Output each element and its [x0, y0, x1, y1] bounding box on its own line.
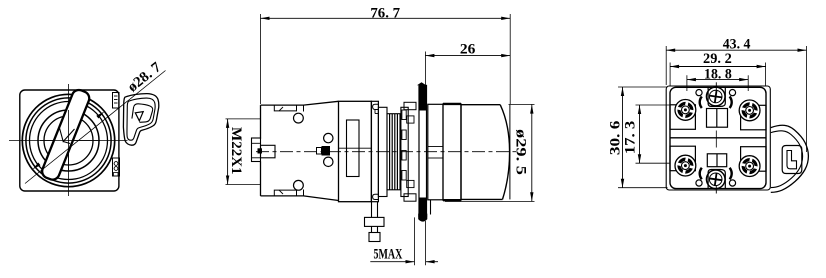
svg-text:5MAX: 5MAX: [374, 247, 403, 263]
svg-text:M22X1: M22X1: [228, 127, 244, 175]
svg-text:29. 2: 29. 2: [703, 51, 732, 67]
svg-text:17. 3: 17. 3: [622, 121, 638, 154]
svg-text:76. 7: 76. 7: [370, 5, 400, 21]
svg-text:30. 6: 30. 6: [608, 121, 624, 156]
svg-text:18. 8: 18. 8: [704, 66, 732, 82]
svg-text:26: 26: [460, 41, 476, 57]
svg-text:ø29. 5: ø29. 5: [513, 129, 529, 175]
